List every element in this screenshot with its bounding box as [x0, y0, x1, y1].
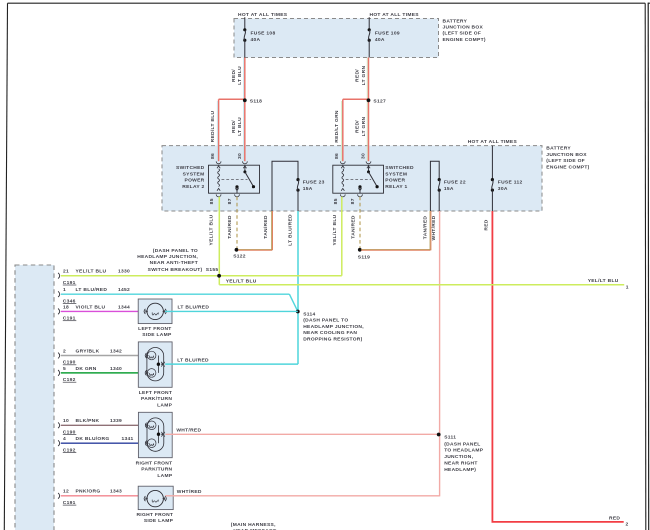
- svg-text:2: 2: [626, 521, 629, 527]
- svg-text:FUSE 108: FUSE 108: [251, 30, 276, 36]
- svg-text:5: 5: [63, 366, 66, 372]
- svg-text:1339: 1339: [110, 418, 122, 424]
- svg-text:RED/: RED/: [231, 120, 237, 133]
- svg-text:SIDE LAMP: SIDE LAMP: [142, 332, 172, 338]
- svg-text:LT BLU: LT BLU: [237, 66, 243, 85]
- svg-text:30: 30: [361, 153, 367, 159]
- svg-text:LT BLU/RED: LT BLU/RED: [76, 287, 108, 293]
- svg-text:1342: 1342: [110, 348, 122, 354]
- svg-text:RED/LT GRN: RED/LT GRN: [334, 110, 340, 143]
- svg-text:PARK/TURN: PARK/TURN: [141, 467, 172, 473]
- svg-text:LT BLU/RED: LT BLU/RED: [287, 214, 293, 246]
- svg-text:30: 30: [237, 153, 243, 159]
- svg-text:SWITCHED: SWITCHED: [385, 165, 414, 171]
- svg-text:(LEFT SIDE OF: (LEFT SIDE OF: [443, 31, 482, 37]
- svg-text:15A: 15A: [444, 186, 454, 192]
- svg-text:LEFT FRONT: LEFT FRONT: [138, 326, 171, 332]
- svg-text:RIGHT FRONT: RIGHT FRONT: [136, 512, 173, 518]
- svg-text:SYSTEM: SYSTEM: [183, 171, 205, 177]
- svg-text:LAMP: LAMP: [157, 473, 172, 479]
- svg-text:87: 87: [350, 198, 356, 204]
- svg-text:(DASH PANEL TO: (DASH PANEL TO: [303, 318, 348, 324]
- svg-text:1: 1: [626, 285, 629, 291]
- svg-text:JUNCTION,: JUNCTION,: [444, 454, 473, 460]
- svg-text:1340: 1340: [110, 366, 122, 372]
- svg-text:DK GRN: DK GRN: [76, 366, 97, 372]
- svg-text:HEADLAMP): HEADLAMP): [444, 467, 476, 473]
- svg-text:18: 18: [63, 304, 69, 310]
- svg-text:LEFT FRONT: LEFT FRONT: [139, 390, 172, 396]
- svg-text:SWITCHED: SWITCHED: [176, 165, 205, 171]
- svg-text:TAN/RED: TAN/RED: [422, 216, 428, 240]
- svg-text:NEAR COOLING FAN: NEAR COOLING FAN: [303, 330, 357, 336]
- svg-text:1330: 1330: [118, 269, 130, 275]
- svg-text:YEL/LT BLU: YEL/LT BLU: [226, 279, 257, 285]
- svg-text:RED/LT BLU: RED/LT BLU: [210, 110, 216, 142]
- svg-text:(DASH PANEL: (DASH PANEL: [444, 441, 480, 447]
- svg-text:PARK/TURN: PARK/TURN: [141, 396, 172, 402]
- svg-text:RED/: RED/: [354, 69, 360, 82]
- svg-text:HOT AT ALL TIMES: HOT AT ALL TIMES: [238, 12, 288, 18]
- svg-text:DROPPING RESISTOR): DROPPING RESISTOR): [303, 336, 362, 342]
- svg-text:RED: RED: [609, 515, 620, 521]
- svg-text:86: 86: [210, 153, 216, 159]
- svg-text:POWER: POWER: [185, 178, 205, 184]
- svg-text:RELAY 2: RELAY 2: [182, 184, 204, 190]
- svg-text:LT GRN: LT GRN: [361, 117, 367, 137]
- svg-text:2: 2: [63, 348, 66, 354]
- svg-text:LT BLU/RED: LT BLU/RED: [177, 357, 209, 363]
- svg-text:1341: 1341: [122, 436, 134, 442]
- svg-text:86: 86: [334, 153, 340, 159]
- svg-text:WHT/RED: WHT/RED: [177, 489, 202, 495]
- svg-text:YEL/LT BLU: YEL/LT BLU: [76, 269, 107, 275]
- svg-text:YEL/LT BLU: YEL/LT BLU: [209, 214, 215, 245]
- svg-text:HOT AT ALL TIMES: HOT AT ALL TIMES: [468, 139, 518, 145]
- svg-text:VIO/LT BLU: VIO/LT BLU: [76, 304, 106, 310]
- svg-text:BLK/PNK: BLK/PNK: [76, 418, 100, 424]
- svg-text:RED/: RED/: [231, 69, 237, 82]
- svg-text:(DASH PANEL TO: (DASH PANEL TO: [153, 248, 198, 254]
- svg-text:NEAR RIGHT: NEAR RIGHT: [444, 460, 477, 466]
- svg-text:1: 1: [63, 287, 66, 293]
- svg-text:(MAIN HARNESS,: (MAIN HARNESS,: [231, 522, 276, 528]
- svg-text:FUSE 23: FUSE 23: [303, 179, 325, 185]
- svg-text:BATTERY: BATTERY: [546, 145, 571, 151]
- svg-text:POWER: POWER: [385, 178, 405, 184]
- svg-text:YEL/LT BLU: YEL/LT BLU: [588, 278, 619, 284]
- svg-text:GRY/BLK: GRY/BLK: [76, 348, 100, 354]
- svg-text:WHT/RED: WHT/RED: [176, 427, 201, 433]
- svg-text:BATTERY: BATTERY: [443, 19, 468, 25]
- svg-text:LAMP: LAMP: [157, 402, 172, 408]
- svg-text:1344: 1344: [118, 304, 130, 310]
- svg-text:RIGHT FRONT: RIGHT FRONT: [136, 461, 173, 467]
- svg-text:1343: 1343: [110, 489, 122, 495]
- svg-text:JUNCTION BOX: JUNCTION BOX: [443, 25, 484, 31]
- svg-text:ENGINE COMPT): ENGINE COMPT): [546, 165, 589, 171]
- svg-text:TAN/RED: TAN/RED: [227, 215, 233, 239]
- svg-text:DK BLU/ORG: DK BLU/ORG: [76, 436, 110, 442]
- svg-text:HOT AT ALL TIMES: HOT AT ALL TIMES: [370, 12, 420, 18]
- svg-text:40A: 40A: [251, 37, 261, 43]
- svg-text:85: 85: [209, 198, 215, 204]
- svg-text:(LEFT SIDE OF: (LEFT SIDE OF: [546, 158, 585, 164]
- svg-text:SWITCH BREAKOUT) S155: SWITCH BREAKOUT) S155: [148, 267, 219, 273]
- svg-text:HEADLAMP JUNCTION,: HEADLAMP JUNCTION,: [303, 324, 364, 330]
- svg-text:RED/: RED/: [354, 120, 360, 133]
- svg-text:12: 12: [63, 489, 69, 495]
- svg-text:ENGINE COMPT): ENGINE COMPT): [443, 37, 486, 43]
- svg-text:1452: 1452: [118, 287, 130, 293]
- svg-text:21: 21: [63, 269, 69, 275]
- svg-text:YEL/LT BLU: YEL/LT BLU: [332, 214, 338, 245]
- svg-text:RED: RED: [483, 219, 489, 230]
- svg-text:S119: S119: [358, 254, 370, 260]
- svg-text:FUSE 109: FUSE 109: [375, 30, 400, 36]
- svg-text:4: 4: [63, 436, 66, 442]
- svg-text:FUSE 22: FUSE 22: [444, 179, 466, 185]
- svg-text:S111: S111: [444, 435, 456, 441]
- svg-text:40A: 40A: [375, 37, 385, 43]
- svg-text:JUNCTION BOX: JUNCTION BOX: [546, 152, 587, 158]
- svg-text:TO HEADLAMP: TO HEADLAMP: [444, 448, 484, 454]
- svg-text:PNK/ORG: PNK/ORG: [76, 489, 101, 495]
- svg-text:S114: S114: [303, 311, 315, 317]
- svg-text:85: 85: [333, 198, 339, 204]
- svg-text:HEADLAMP JUNCTION,: HEADLAMP JUNCTION,: [137, 254, 198, 260]
- svg-text:LT BLU/RED: LT BLU/RED: [178, 305, 210, 311]
- svg-text:FUSE 112: FUSE 112: [498, 179, 523, 185]
- svg-text:TAN/RED: TAN/RED: [263, 215, 269, 239]
- svg-text:LT GRN: LT GRN: [361, 66, 367, 86]
- svg-text:SYSTEM: SYSTEM: [385, 171, 407, 177]
- svg-text:S118: S118: [250, 99, 262, 105]
- svg-text:10: 10: [63, 418, 69, 424]
- svg-text:SIDE LAMP: SIDE LAMP: [144, 518, 174, 524]
- svg-text:TAN/RED: TAN/RED: [350, 215, 356, 239]
- svg-text:S127: S127: [373, 99, 386, 105]
- svg-text:30A: 30A: [498, 186, 508, 192]
- svg-text:S122: S122: [233, 253, 246, 259]
- svg-text:RELAY 1: RELAY 1: [385, 184, 407, 190]
- svg-text:WHT/RED: WHT/RED: [431, 215, 437, 240]
- svg-text:LT BLU: LT BLU: [237, 117, 243, 136]
- svg-text:NEAR ANTI-THEFT: NEAR ANTI-THEFT: [150, 260, 198, 266]
- svg-text:15A: 15A: [303, 186, 313, 192]
- svg-text:87: 87: [227, 198, 233, 204]
